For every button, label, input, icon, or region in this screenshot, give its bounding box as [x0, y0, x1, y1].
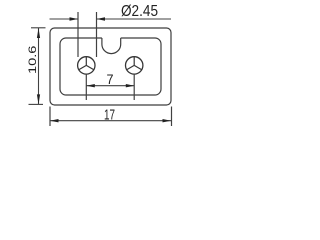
17 extension line left: [49, 107, 51, 127]
svg-text:Ø2.45: Ø2.45: [121, 3, 158, 20]
hole circle right: [126, 57, 143, 74]
hole circle left: [78, 57, 95, 74]
10.6 extension tick bottom: [29, 103, 44, 105]
svg-text:17: 17: [104, 106, 115, 123]
hole left tri-spokes: [79, 57, 94, 70]
7 extension line right (from right hole center): [133, 74, 135, 100]
10.6 arrow down: [37, 94, 40, 104]
10.6 extension tick top: [31, 27, 46, 29]
dia 2.45 dimension line left segment: [50, 18, 79, 20]
dia 2.45 arrow right (points left): [97, 17, 106, 20]
7 arrow right (points right): [126, 84, 135, 87]
dia 2.45 arrow left (points right): [70, 17, 79, 20]
7 dimension line: [86, 85, 134, 87]
7 extension line left (from left hole center): [85, 74, 87, 100]
17 arrow left (points left): [50, 119, 59, 122]
17 dimension line: [50, 120, 171, 122]
dia 2.45 extension line left: [77, 12, 79, 57]
7 arrow left (points left): [86, 84, 95, 87]
10.6 arrow up: [37, 28, 40, 38]
17 extension line right: [171, 107, 173, 127]
dia 2.45 extension line right: [96, 12, 98, 57]
svg-text:10.6: 10.6: [27, 46, 39, 75]
hole right tri-spokes: [127, 57, 142, 70]
17 arrow right (points right): [163, 119, 172, 122]
part outline outer rounded rectangle: [50, 28, 171, 105]
10.6 dimension line: [38, 28, 40, 104]
svg-text:7: 7: [107, 71, 114, 87]
dia 2.45 dimension line right segment: [97, 18, 172, 20]
inner cavity rounded rectangle with top U-notch: [60, 38, 161, 95]
